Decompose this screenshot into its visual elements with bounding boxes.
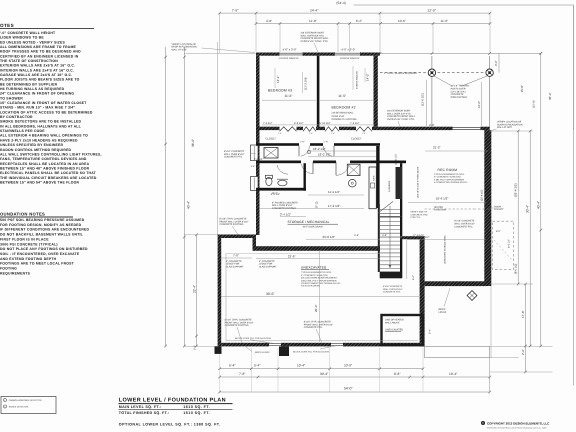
svg-text:FOR FOOTING DESIGN. MODIFY AS: FOR FOOTING DESIGN. MODIFY AS NEEDED (0, 223, 82, 227)
svg-text:STAIRS - MIN. RUN 10" - MAX RI: STAIRS - MIN. RUN 10" - MAX RISE 7 3/4" (0, 106, 75, 110)
svg-text:3'-4": 3'-4" (354, 234, 359, 237)
svg-text:1'-6": 1'-6" (309, 132, 313, 135)
svg-text:(11'-3 1/4): (11'-3 1/4) (304, 77, 308, 90)
svg-text:WALL AT SITE: WALL AT SITE (172, 48, 188, 51)
svg-text:40'-4": 40'-4" (187, 201, 191, 209)
svg-text:- SMOKE DETECTOR: - SMOKE DETECTOR (8, 406, 29, 409)
svg-text:22'-4": 22'-4" (193, 285, 197, 293)
svg-text:CONCRETE FTG.: CONCRETE FTG. (224, 156, 243, 159)
svg-text:8'-0": 8'-0" (496, 230, 501, 233)
svg-text:UNFINISHED STORAGE AREA: UNFINISHED STORAGE AREA (444, 235, 447, 264)
svg-text:VERIFY LOCATION OF: VERIFY LOCATION OF (172, 43, 197, 46)
svg-text:WALL OVER 8"x16": WALL OVER 8"x16" (454, 222, 475, 225)
svg-text:4" CONCRETE: 4" CONCRETE (259, 260, 275, 263)
svg-text:5'-4": 5'-4" (412, 275, 415, 280)
svg-text:11'-6": 11'-6" (441, 19, 449, 23)
svg-text:8"x16" (TYP.) CONCRETE: 8"x16" (TYP.) CONCRETE (225, 319, 253, 322)
svg-text:SLAB SUPPORT: SLAB SUPPORT (226, 265, 244, 268)
svg-text:- CARBON MONOXIDE DETECTOR: - CARBON MONOXIDE DETECTOR (8, 399, 43, 402)
svg-text:7'-4 1/2": 7'-4 1/2" (350, 122, 360, 125)
svg-text:DOOR IN FOUNDATION: DOOR IN FOUNDATION (497, 123, 523, 126)
svg-text:FRONT WALL OVER 8"x16": FRONT WALL OVER 8"x16" (219, 220, 248, 223)
svg-text:WALL OVER 8"x16": WALL OVER 8"x16" (224, 153, 245, 156)
svg-text:36'-0": 36'-0" (191, 139, 195, 147)
svg-text:(12"x 48" DIA.): (12"x 48" DIA.) (451, 90, 466, 93)
svg-text:18'-2 1/2": 18'-2 1/2" (313, 147, 326, 151)
svg-text:6'-2": 6'-2" (356, 19, 362, 23)
svg-text:TYPICAL BASEMENT FLOOR:: TYPICAL BASEMENT FLOOR: (434, 173, 465, 176)
svg-text:WALL ABOVE: WALL ABOVE (385, 322, 400, 325)
svg-text:CONCRETE FOOTING: CONCRETE FOOTING (272, 207, 296, 210)
svg-text:AND EXTEND FOOTING DEPTH: AND EXTEND FOOTING DEPTH (0, 257, 57, 261)
svg-text:13'-4": 13'-4" (449, 372, 457, 376)
svg-text:HAVE 2-PLY 2x10 HEADERS AS REQ: HAVE 2-PLY 2x10 HEADERS AS REQUIRED (0, 138, 78, 142)
svg-text:15" CLEARANCE IN FRONT OF WATE: 15" CLEARANCE IN FRONT OF WATER CLOSET (0, 101, 87, 105)
svg-text:FLOOR JOISTS AND BEAM'S SIZES: FLOOR JOISTS AND BEAM'S SIZES ARE TO (0, 78, 80, 82)
svg-text:FURN: FURN (373, 175, 376, 181)
svg-text:(7'-2): (7'-2) (315, 201, 319, 208)
svg-text:11'-5": 11'-5" (338, 94, 346, 98)
svg-text:VERIFY LOCATION OF: VERIFY LOCATION OF (497, 121, 522, 124)
svg-text:5'-4": 5'-4" (251, 165, 256, 168)
svg-text:(OVER) COMPACTED GRANULAR FILL: (OVER) COMPACTED GRANULAR FILL (301, 282, 342, 285)
svg-text:LEDGE FOR: LEDGE FOR (259, 263, 273, 266)
svg-text:THE INDIVIDUAL CIRCUIT BREAKER: THE INDIVIDUAL CIRCUIT BREAKERS ARE LOCA… (0, 176, 97, 180)
svg-text:EGRESS WINDOW: EGRESS WINDOW (356, 71, 359, 89)
svg-text:ROOF TRUSSES ARE TO BE DESIGNE: ROOF TRUSSES ARE TO BE DESIGNED AND (0, 50, 81, 54)
svg-text:14"x 8" TREATED: 14"x 8" TREATED (451, 85, 470, 88)
svg-text:BLOCK CORE FILL FOR 4x4 DOOR: BLOCK CORE FILL FOR 4x4 DOOR (293, 350, 329, 353)
svg-text:BEDROOM #2: BEDROOM #2 (332, 106, 356, 110)
svg-text:BY CONTRACTOR: BY CONTRACTOR (0, 115, 33, 119)
svg-text:10'-6": 10'-6" (398, 19, 406, 23)
svg-text:(OR) 6 MIL POLY VAPOR BARRIER: (OR) 6 MIL POLY VAPOR BARRIER (301, 279, 337, 282)
svg-text:LOCATION OF ATTIC ACCESS TO BE: LOCATION OF ATTIC ACCESS TO BE DETERMINE… (0, 110, 93, 114)
svg-text:CONCRETE FRONT WALL: CONCRETE FRONT WALL (387, 115, 416, 118)
svg-text:10'-0": 10'-0" (344, 364, 352, 368)
svg-text:23'-6 1/2": 23'-6 1/2" (323, 235, 336, 239)
svg-text:6'-4": 6'-4" (229, 364, 235, 368)
svg-text:WALL OVER 8"x16": WALL OVER 8"x16" (383, 288, 403, 291)
svg-text:GARAGE WALLS ARE 2x4'S AT 16": GARAGE WALLS ARE 2x4'S AT 16" O.C. (0, 73, 72, 77)
svg-text:5'-10 3/4": 5'-10 3/4" (320, 122, 331, 125)
svg-text:11'-2 1/2": 11'-2 1/2" (328, 190, 340, 194)
svg-text:CLOSET: CLOSET (266, 138, 277, 141)
svg-text:14'-1": 14'-1" (276, 75, 280, 83)
svg-text:4" CONC. SLAB AS REQUIRED: 4" CONC. SLAB AS REQUIRED (384, 72, 417, 75)
svg-text:6'-0 1/2": 6'-0 1/2" (508, 239, 511, 248)
svg-text:54'-0": 54'-0" (344, 387, 353, 391)
svg-text:LEDGE FOR: LEDGE FOR (226, 263, 240, 266)
svg-text:3'-8": 3'-8" (382, 234, 387, 237)
svg-text:5'-4": 5'-4" (254, 364, 260, 368)
svg-text:3000 PSI CONCRETE (TYPICAL): 3000 PSI CONCRETE (TYPICAL) (0, 242, 58, 246)
svg-text:15'-8": 15'-8" (520, 85, 524, 93)
svg-text:POCKET: POCKET (494, 208, 504, 211)
svg-text:6 MIL POLY VAPOR BARRIER: 6 MIL POLY VAPOR BARRIER (434, 178, 464, 181)
svg-text:8"x16" CONCRETE: 8"x16" CONCRETE (383, 285, 403, 288)
svg-text:W/ FLOOR DRAIN: W/ FLOOR DRAIN (303, 225, 323, 228)
svg-text:30'-4": 30'-4" (526, 205, 530, 213)
svg-text:REQUIREMENTS: REQUIREMENTS (0, 271, 31, 275)
svg-text:4'-8": 4'-8" (266, 19, 272, 23)
svg-text:WALL OVER 8'(9'-0"H): WALL OVER 8'(9'-0"H) (301, 34, 325, 37)
svg-text:2'-0": 2'-0" (194, 345, 197, 350)
svg-text:2'-6": 2'-6" (300, 140, 305, 143)
svg-text:HEATED: HEATED (434, 206, 443, 209)
svg-text:RADON CONTROL METHOD REQUIRED: RADON CONTROL METHOD REQUIRED (0, 148, 72, 152)
svg-text:FOR FTG.: FOR FTG. (410, 216, 421, 219)
svg-text:LINE OF HEATED: LINE OF HEATED (385, 319, 404, 322)
svg-text:FIRST FLOOR IS IN PLACE: FIRST FLOOR IS IN PLACE (0, 237, 49, 241)
svg-text:STAIRWELLS PER CODE: STAIRWELLS PER CODE (0, 129, 45, 133)
svg-text:2x6 EXTERIOR SKIRT: 2x6 EXTERIOR SKIRT (387, 110, 411, 113)
svg-text:BETWEEN 15" AND 48" ABOVE FINI: BETWEEN 15" AND 48" ABOVE FINISHED FLOOR (0, 166, 90, 170)
svg-text:COPYRIGHT 2013 DESIGN ELEMENTS: COPYRIGHT 2013 DESIGN ELEMENTS, LLC (487, 422, 550, 426)
svg-text:ALL EXTERIOR 4 BEARING WALL OP: ALL EXTERIOR 4 BEARING WALL OPENINGS TO (0, 134, 88, 138)
svg-text:CONCRETE: CONCRETE (451, 93, 464, 96)
svg-text:LOWER LEVEL / FOUNDATION PLAN: LOWER LEVEL / FOUNDATION PLAN (119, 398, 226, 404)
svg-text:RECEPTACLES SHALL BE LOCATED I: RECEPTACLES SHALL BE LOCATED IN AN AREA (0, 162, 90, 166)
svg-text:WALL OVER 8"x16": WALL OVER 8"x16" (272, 204, 293, 207)
svg-text:1610 SQ. FT.: 1610 SQ. FT. (183, 411, 210, 415)
svg-text:24" CLEARANCE IN FRONT OF OPEN: 24" CLEARANCE IN FRONT OF OPENING (0, 92, 74, 96)
svg-text:8" POURED CONCRETE: 8" POURED CONCRETE (272, 201, 299, 204)
svg-text:11'-8": 11'-8" (309, 19, 317, 23)
svg-text:POSTS OVER: POSTS OVER (451, 88, 466, 91)
svg-text:LEDGE: LEDGE (439, 311, 447, 314)
svg-text:14'-2": 14'-2" (366, 73, 370, 81)
svg-text:MAIN LEVEL SQ. FT.:: MAIN LEVEL SQ. FT.: (119, 405, 162, 409)
svg-text:INTERIOR WALLS ARE 2x4'S AT 16: INTERIOR WALLS ARE 2x4'S AT 16" O.C. (0, 68, 74, 72)
svg-text:UNEXCAVATED: UNEXCAVATED (301, 266, 327, 270)
svg-text:DOOR: DOOR (494, 205, 501, 208)
svg-text:EGRESS WINDOW: EGRESS WINDOW (340, 57, 360, 60)
svg-text:1'-6": 1'-6" (362, 132, 366, 135)
svg-text:EXTERIOR WALLS ARE 2x6'S AT 16: EXTERIOR WALLS ARE 2x6'S AT 16" O.C. (0, 64, 75, 68)
svg-text:22'-0": 22'-0" (428, 9, 437, 13)
svg-text:TO BELOW: TO BELOW (434, 209, 447, 212)
svg-text:REC ROOM: REC ROOM (438, 168, 458, 172)
svg-text:BLOCK CORE FILL FOR 4x4 DOOR: BLOCK CORE FILL FOR 4x4 DOOR (235, 337, 271, 340)
svg-text:11'-6": 11'-6" (285, 94, 293, 98)
svg-text:20'-4": 20'-4" (314, 304, 318, 312)
svg-text:SLAB SUPPORT: SLAB SUPPORT (259, 265, 277, 268)
svg-text:BRICK LEDGE: BRICK LEDGE (255, 351, 270, 354)
svg-text:STORAGE / MECHANICAL: STORAGE / MECHANICAL (288, 220, 330, 224)
svg-text:FOOTINGS ARE TO MEET LOCAL FRO: FOOTINGS ARE TO MEET LOCAL FROST (0, 262, 75, 266)
svg-text:3'-6": 3'-6" (494, 60, 498, 66)
svg-text:IN ALL BEDROOMS, HALLWAYS AND: IN ALL BEDROOMS, HALLWAYS AND AT ALL (0, 124, 81, 128)
svg-text:WALL AT SITE: WALL AT SITE (497, 126, 513, 129)
svg-text:3'-8 1/2": 3'-8 1/2" (254, 158, 264, 161)
svg-text:21'-2": 21'-2" (433, 145, 441, 149)
svg-text:IF DIFFERENT CONDITIONS ARE EN: IF DIFFERENT CONDITIONS ARE ENCOUNTERED (0, 228, 90, 232)
svg-text:TYPICAL BASEMENT FLOOR:: TYPICAL BASEMENT FLOOR: (301, 271, 332, 274)
svg-text:2'-6": 2'-6" (324, 140, 329, 143)
svg-text:FRONT WALL OVER 8"x16": FRONT WALL OVER 8"x16" (304, 323, 333, 326)
svg-text:30'-6": 30'-6" (266, 292, 275, 296)
svg-text:DROP IN FOUNDATION: DROP IN FOUNDATION (172, 46, 198, 49)
svg-text:LINE OF FLOOR SYSTEM ABOVE: LINE OF FLOOR SYSTEM ABOVE (417, 166, 420, 198)
svg-text:8"x16" CONCRETE: 8"x16" CONCRETE (454, 220, 475, 223)
svg-text:2'-4": 2'-4" (521, 349, 525, 355)
svg-text:7'-8": 7'-8" (232, 9, 239, 13)
svg-text:CONCRETE FOOTING: CONCRETE FOOTING (225, 324, 249, 327)
svg-text:OPTIONAL LOWER LEVEL SQ. FT.:: OPTIONAL LOWER LEVEL SQ. FT.: 1380 SQ. F… (119, 423, 221, 427)
svg-text:(54'-4): (54'-4) (336, 1, 345, 5)
svg-text:ON FLOOR DRAIN: ON FLOOR DRAIN (301, 285, 320, 288)
svg-text:4'-8 1/2": 4'-8 1/2" (294, 122, 304, 125)
svg-text:4'-0" x 3'-0": 4'-0" x 3'-0" (341, 47, 355, 51)
svg-text:ALL DIMENSIONS ARE FRAME TO FR: ALL DIMENSIONS ARE FRAME TO FRAME (0, 45, 77, 49)
svg-text:'-0" CONCRETE WALL HEIGHT: '-0" CONCRETE WALL HEIGHT (0, 31, 56, 35)
svg-text:23'-8": 23'-8" (288, 254, 296, 258)
svg-text:ALL WALL SWITCHES CONTROLLING: ALL WALL SWITCHES CONTROLLING LIGHT FIXT… (0, 152, 102, 156)
svg-text:BRICK: BRICK (439, 308, 446, 311)
svg-text:CONCRETE FOOTING: CONCRETE FOOTING (219, 223, 243, 226)
svg-text:VERIFY SIZE OF: VERIFY SIZE OF (410, 211, 428, 214)
svg-text:35'-4": 35'-4" (548, 92, 552, 100)
svg-text:CONCRETE PAD: CONCRETE PAD (410, 213, 428, 216)
svg-text:4" CONCRETE SLAB (ON): 4" CONCRETE SLAB (ON) (434, 176, 461, 179)
svg-text:7'-8": 7'-8" (239, 372, 245, 376)
svg-text:CONCRETE FOOTING: CONCRETE FOOTING (332, 118, 357, 121)
svg-text:1'-6": 1'-6" (331, 132, 335, 135)
svg-text:8"x16" (TYP.) CONCRETE: 8"x16" (TYP.) CONCRETE (304, 321, 332, 324)
svg-text:(25'-4 1/2): (25'-4 1/2) (481, 190, 484, 201)
svg-text:(12'-0 1/2): (12'-0 1/2) (421, 93, 425, 106)
svg-text:UNLESS SPECIFIED BY ENGINEER: UNLESS SPECIFIED BY ENGINEER (0, 143, 64, 147)
svg-text:1'-6": 1'-6" (278, 132, 282, 135)
svg-text:CLOSET: CLOSET (351, 138, 362, 141)
svg-text:C: C (482, 422, 484, 425)
svg-text:(11'-8 1/2): (11'-8 1/2) (395, 154, 398, 165)
svg-text:4" CONCRETE: 4" CONCRETE (226, 260, 242, 263)
svg-text:FOOTING: FOOTING (0, 267, 17, 271)
svg-text:LIDER WINDOWS TO BE: LIDER WINDOWS TO BE (0, 36, 44, 40)
svg-text:FRONT WALL OVER 8"x16": FRONT WALL OVER 8"x16" (225, 321, 254, 324)
svg-text:18'-2 1/2": 18'-2 1/2" (318, 153, 331, 157)
svg-text:DO NOT PLACE ANY FOOTINGS ON D: DO NOT PLACE ANY FOOTINGS ON DISTURBED (0, 247, 88, 251)
svg-text:BE DETERMINED BY SUPPLIER: BE DETERMINED BY SUPPLIER (0, 82, 58, 86)
svg-text:2x6 EXTERIOR SKIRT: 2x6 EXTERIOR SKIRT (301, 32, 325, 35)
svg-text:16'-6 1/2": 16'-6 1/2" (436, 197, 449, 201)
svg-text:30'-4": 30'-4" (320, 372, 328, 376)
svg-text:4" CONCRETE SLAB (ON): 4" CONCRETE SLAB (ON) (301, 274, 328, 277)
svg-text:7'-4 1/2": 7'-4 1/2" (263, 122, 273, 125)
svg-text:2'-4 1/2": 2'-4 1/2" (280, 212, 291, 216)
svg-text:OVER 8"x16" CONC. FTG.: OVER 8"x16" CONC. FTG. (387, 118, 415, 121)
svg-text:& COMPACTED GRANULAR FILL: & COMPACTED GRANULAR FILL (434, 181, 468, 184)
svg-text:4'-0" x 3'-0": 4'-0" x 3'-0" (283, 47, 297, 51)
svg-text:(25'-4 1/2): (25'-4 1/2) (514, 183, 518, 197)
svg-text:EGRESS WINDOW: EGRESS WINDOW (279, 57, 299, 60)
svg-text:ED UNLESS NOTED - VERIFY SIZES: ED UNLESS NOTED - VERIFY SIZES (0, 40, 65, 44)
svg-text:BEDROOM #3: BEDROOM #3 (268, 89, 292, 93)
svg-text:UNEXCAVATED: UNEXCAVATED (385, 329, 403, 332)
svg-text:FANS, TEMPERATURE CONTROL DEVI: FANS, TEMPERATURE CONTROL DEVICES AND (0, 157, 87, 161)
svg-text:(8'-0 1/2): (8'-0 1/2) (515, 264, 518, 274)
svg-text:17'-8": 17'-8" (521, 310, 525, 318)
svg-text:THE STATE OF CONSTRUCTION: THE STATE OF CONSTRUCTION (0, 59, 58, 63)
svg-text:TOTAL FINISHED SQ. FT.:: TOTAL FINISHED SQ. FT.: (119, 411, 170, 415)
svg-text:TO SHOWER: TO SHOWER (0, 96, 23, 100)
svg-text:40'-4": 40'-4" (537, 201, 541, 209)
svg-text:DO NOT BACKFILL BASEMENT WALLS: DO NOT BACKFILL BASEMENT WALLS UNTIL (0, 233, 83, 237)
svg-text:OUNDATION NOTES: OUNDATION NOTES (0, 212, 45, 217)
svg-text:5'-4": 5'-4" (429, 329, 432, 334)
svg-text:BETWEEN 15" AND 54" ABOVE THE: BETWEEN 15" AND 54" ABOVE THE FLOOR (0, 180, 79, 184)
svg-text:10'-4": 10'-4" (297, 364, 305, 368)
svg-text:8'-8": 8'-8" (394, 372, 400, 376)
svg-text:ELECTRICAL PANELS SHALL BE LOC: ELECTRICAL PANELS SHALL BE LOCATED SO TH… (0, 171, 97, 175)
svg-text:CONCRETE FTG.: CONCRETE FTG. (383, 291, 401, 294)
svg-text:4'-0": 4'-0" (429, 123, 435, 127)
svg-text:8"x16" (TYP.) CONCRETE: 8"x16" (TYP.) CONCRETE (219, 218, 247, 221)
svg-text:CONCRETE FTG.: CONCRETE FTG. (454, 225, 473, 228)
svg-text:OTES: OTES (0, 23, 14, 28)
svg-text:4'-6 1/2": 4'-6 1/2" (271, 193, 281, 196)
svg-text:500 PSF SOIL BEARING PRESSURE: 500 PSF SOIL BEARING PRESSURE ASSUMED (0, 218, 85, 222)
svg-text:CONCRETE FTG.: CONCRETE FTG. (304, 326, 323, 329)
svg-text:CERTIFIED BY AN ENGINEER LICEN: CERTIFIED BY AN ENGINEER LICENSED IN (0, 54, 79, 58)
svg-text:7'-0": 7'-0" (233, 254, 239, 258)
svg-text:WALL OVER 4'(9'-0"H): WALL OVER 4'(9'-0"H) (387, 112, 411, 115)
svg-text:1610 SQ. FT.: 1610 SQ. FT. (183, 405, 210, 409)
svg-text:OVER 8"x16" CONC. FTG.: OVER 8"x16" CONC. FTG. (301, 40, 329, 43)
svg-text:PIER FOOTING: PIER FOOTING (451, 96, 468, 99)
svg-text:24'-4": 24'-4" (310, 9, 319, 13)
svg-text:6x6 10/10 WWM REINFORCEMENT: 6x6 10/10 WWM REINFORCEMENT (301, 277, 338, 280)
svg-text:8"x16" CONCRETE: 8"x16" CONCRETE (224, 150, 245, 153)
svg-text:SMOKE DETECTORS ARE TO BE INST: SMOKE DETECTORS ARE TO BE INSTALLED (0, 120, 81, 124)
svg-text:12'-0": 12'-0" (477, 101, 481, 108)
svg-text:H6 FURRING WALLS AS REQUIRED: H6 FURRING WALLS AS REQUIRED (0, 87, 65, 91)
svg-text:14 RISERS: 14 RISERS (388, 180, 391, 192)
svg-text:CONCRETE FRONT WALL: CONCRETE FRONT WALL (301, 37, 330, 40)
svg-text:(12'-0): (12'-0) (533, 100, 536, 108)
svg-text:17'-2 1/2": 17'-2 1/2" (328, 204, 341, 208)
svg-text:SOIL - IF ENCOUNTERED, OVER EX: SOIL - IF ENCOUNTERED, OVER EXCAVATE (0, 252, 80, 256)
